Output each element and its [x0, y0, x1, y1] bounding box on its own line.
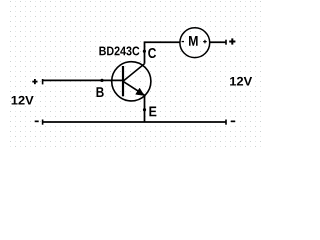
- wire: motor to + terminal: [210, 41, 226, 43]
- motor label M: [189, 36, 198, 46]
- right + sign: [229, 38, 235, 44]
- pin label B: [97, 87, 104, 97]
- wire: collector vertical up to top rail: [145, 42, 181, 63]
- left - sign: [35, 121, 39, 123]
- left + sign: [32, 79, 37, 84]
- dot grid background: [10, 0, 262, 148]
- pin junction dot B: [100, 79, 103, 82]
- wire: base wire from left + terminal to transistor base: [43, 79, 124, 81]
- pin label E: [149, 107, 156, 117]
- motor minus mark: [182, 41, 184, 42]
- pin label C: [148, 48, 156, 58]
- emitter arrow: [136, 88, 145, 95]
- pin junction dot C: [143, 50, 146, 53]
- label 12V left: [12, 96, 34, 105]
- motor plus mark: [203, 40, 207, 44]
- left - terminal tick: [42, 120, 44, 125]
- right - terminal tick: [225, 120, 227, 125]
- transistor Q1 BD243C (NPN) circle: [112, 62, 151, 101]
- right - sign: [231, 121, 235, 123]
- left + terminal tick: [42, 79, 44, 84]
- wire: bottom negative rail: [43, 121, 227, 123]
- transistor emitter diagonal: [123, 81, 145, 95]
- wire: emitter vertical down to bottom rail: [144, 95, 146, 122]
- label 12V right: [230, 77, 252, 86]
- right + terminal tick: [225, 40, 227, 45]
- motor M1 circle: [180, 28, 210, 58]
- transistor base bar: [122, 66, 124, 96]
- label BD243C: [99, 47, 139, 56]
- pin junction dot E: [143, 108, 146, 111]
- transistor collector diagonal: [123, 64, 145, 82]
